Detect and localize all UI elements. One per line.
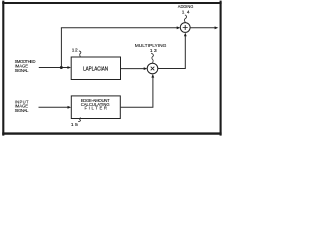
leader squiggle 12: [79, 51, 81, 57]
svg-text:SIGNAL: SIGNAL: [15, 108, 30, 113]
svg-text:ADDING: ADDING: [178, 4, 194, 9]
adder circle plus 14: [180, 23, 190, 33]
arrowhead output: [215, 26, 219, 29]
label INPUT IMAGE SIGNAL: [15, 99, 30, 113]
label SMOOTHED IMAGE SIGNAL: [15, 59, 36, 73]
arrowhead into multiplier bottom: [151, 74, 154, 78]
leader squiggle 14: [184, 15, 186, 23]
svg-text:1 3: 1 3: [150, 48, 157, 54]
junction node: [60, 66, 63, 69]
arrowhead into adder bottom: [184, 33, 187, 37]
wire smoothed input: [39, 67, 69, 69]
wire multiplier output to adder: [158, 35, 186, 69]
svg-text:1 2: 1 2: [72, 48, 78, 54]
wire top run to adder: [61, 27, 178, 29]
svg-text:1 4: 1 4: [182, 10, 190, 16]
border frame: [2, 1, 221, 136]
svg-text:LAPLACIAN: LAPLACIAN: [83, 66, 108, 72]
wire branch up: [60, 28, 62, 68]
arrowhead into Laplacian: [67, 66, 71, 69]
svg-text:FILTER: FILTER: [84, 105, 107, 110]
arrowhead into adder left: [177, 26, 181, 29]
block Laplacian 12: [71, 57, 120, 80]
wire filter output to multiplier: [121, 76, 153, 107]
block Edge-Amount Calculating Filter 15: [71, 96, 120, 119]
multiplier circle X 13: [147, 63, 158, 74]
svg-text:SIGNAL: SIGNAL: [15, 68, 30, 73]
svg-text:1 5: 1 5: [71, 122, 78, 128]
leader squiggle 13: [151, 53, 153, 63]
wire Laplacian output: [121, 68, 145, 70]
arrowhead into filter: [68, 106, 72, 109]
arrowhead into multiplier left: [144, 67, 148, 70]
wire input image: [39, 106, 69, 108]
wire adder output: [190, 27, 216, 29]
leader squiggle 15: [78, 118, 81, 122]
svg-text:MULTIPLYING: MULTIPLYING: [135, 43, 167, 48]
